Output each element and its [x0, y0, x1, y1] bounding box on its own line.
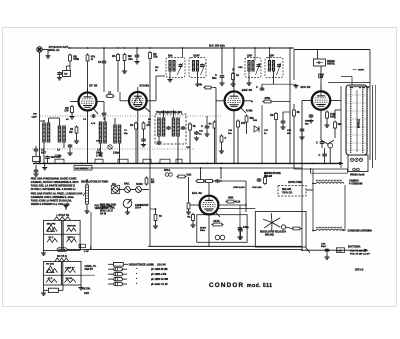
svg-text:BATTERIA: BATTERIA — [348, 246, 361, 249]
svg-text:pF ±20%: pF ±20% — [151, 274, 160, 276]
resistor 10k — [334, 110, 343, 138]
resistor P — [219, 134, 227, 153]
wire right frame vertical — [369, 50, 371, 161]
wire B+ top rail — [68, 47, 294, 49]
svg-text:CORDONE ANTENNA: CORDONE ANTENNA — [348, 230, 373, 233]
label C96 — [32, 114, 38, 119]
svg-text:C/16 0,5k: C/16 0,5k — [252, 187, 262, 189]
svg-text:TIPO CR: TIPO CR — [282, 192, 292, 195]
wire antenna down — [39, 52, 41, 163]
svg-text:RETE: RETE — [214, 221, 221, 223]
svg-text:RAD.: RAD. — [124, 182, 130, 185]
svg-text:CAMBIAR CON LI INSIEME IL AGG: CAMBIAR CON LI INSIEME IL AGG. — [31, 195, 75, 199]
svg-text:OSTR 1: OSTR 1 — [67, 237, 76, 239]
capacitor + ground wire — [256, 84, 299, 91]
wire x290 down — [289, 47, 291, 163]
label presa — [350, 173, 364, 176]
resistors above ECL82 — [195, 180, 214, 183]
labels misc 5 — [199, 131, 204, 136]
svg-text:R2A: R2A — [168, 54, 173, 57]
svg-text:R 47k: R 47k — [54, 156, 61, 159]
svg-text:SEC.PRI: SEC.PRI — [47, 224, 56, 226]
wires right of ECC82 — [328, 70, 370, 89]
label regolatore velocita — [260, 230, 286, 236]
svg-text:C/9F: C/9F — [247, 55, 253, 57]
wires ECH81 — [120, 76, 165, 101]
labels misc 14 — [66, 118, 69, 121]
svg-text:DI UNA L'ANTENNE DEL A RADIO: DI UNA L'ANTENNE DEL A RADIO LI — [31, 187, 76, 191]
label batteria — [348, 246, 370, 256]
svg-text:TP: TP — [64, 72, 68, 76]
motor box — [255, 212, 306, 248]
label pot volume — [95, 205, 113, 211]
switch S2 — [328, 140, 334, 163]
pickup jack box — [314, 50, 336, 67]
wire long down x150 — [149, 60, 151, 163]
resistor R4 — [130, 121, 137, 163]
tube EBF80 — [225, 91, 244, 110]
svg-text:FUS: FUS — [337, 250, 342, 252]
ground antenna — [45, 50, 50, 59]
wire right T2 — [81, 274, 95, 276]
resistor R1 1M — [69, 125, 79, 143]
resistor 5.1k — [145, 176, 155, 185]
svg-text:1 ΩΡ: 1 ΩΡ — [84, 251, 90, 253]
label caval — [85, 265, 97, 271]
wire to EF85 grid — [87, 63, 89, 92]
svg-text:MOD. LN 27: MOD. LN 27 — [100, 210, 114, 212]
svg-text:OG-4: OG-4 — [135, 207, 142, 210]
legend capacitor row 3 — [108, 277, 169, 281]
label commutator — [135, 204, 149, 210]
svg-text:MOD. AL: MOD. AL — [49, 48, 61, 52]
label cam — [318, 74, 324, 80]
wires from bus to ECL82 — [200, 167, 222, 179]
resistor field coil — [44, 285, 63, 292]
svg-text:5,6k: 5,6k — [187, 174, 192, 177]
svg-text:27k: 27k — [147, 124, 152, 127]
svg-text:μF ±20%: μF ±20% — [151, 279, 160, 281]
svg-text:kΩ: kΩ — [151, 181, 154, 184]
wire bottom bus 2 — [67, 249, 302, 251]
resistor 5k — [189, 122, 197, 163]
capacitor C10n to ground — [128, 47, 139, 64]
svg-text:10k: 10k — [338, 123, 343, 126]
label attacco ant — [49, 45, 69, 52]
svg-text:170: 170 — [64, 110, 69, 113]
ground at bus — [42, 163, 47, 170]
svg-text:50n: 50n — [212, 76, 217, 80]
oscillator coil L3 — [96, 117, 121, 163]
capacitor + wire — [213, 179, 247, 206]
labels misc 10 — [305, 121, 310, 126]
svg-text:MOBILE: MOBILE — [359, 119, 361, 128]
svg-text:FUS. F2 250 mA 6V: FUS. F2 250 mA 6V — [350, 252, 370, 255]
svg-text:908-1R2: 908-1R2 — [265, 234, 275, 236]
capacitor trimmer — [67, 144, 72, 155]
tube EF85 pins — [70, 88, 104, 163]
wire corner step 1 — [294, 163, 348, 169]
labels misc 1 — [83, 119, 96, 125]
svg-text:SO 4Ω: SO 4Ω — [66, 277, 73, 280]
tube ECL82 pins — [190, 183, 246, 222]
resistor 50k — [245, 114, 254, 134]
capacitor right 2 — [316, 141, 324, 149]
svg-text:LES: LES — [321, 243, 326, 245]
comps on bottom bus — [79, 244, 91, 253]
svg-text:R 56k: R 56k — [246, 110, 253, 113]
svg-text:TAGLI CON LA PARTE DI SALDA.: TAGLI CON LA PARTE DI SALDA. — [31, 199, 72, 203]
svg-text:PER UNA FUNZIONAM. RADIO CONT.: PER UNA FUNZIONAM. RADIO CONT. — [31, 177, 77, 181]
wire EBF80 plate up — [233, 47, 235, 84]
wire x150 down — [149, 163, 151, 246]
svg-text:C: C — [201, 125, 203, 128]
label R47k — [54, 156, 61, 159]
svg-text:C10n: C10n — [243, 227, 249, 229]
svg-text:SINTOM: SINTOM — [67, 226, 76, 228]
wire x302 down — [301, 163, 303, 250]
resistor 270k — [251, 97, 290, 103]
svg-text:SURV: SURV — [200, 228, 207, 230]
svg-text:CAP.: CAP. — [84, 292, 90, 295]
labels misc 4 — [186, 147, 191, 149]
svg-text:1/4 W: 1/4 W — [100, 212, 107, 215]
svg-text:CAVAL. PL: CAVAL. PL — [85, 265, 97, 268]
wire right coils — [344, 185, 346, 231]
labels misc 12 — [238, 67, 243, 69]
wire corner step 2 — [311, 168, 348, 173]
svg-text:LTO PR: LTO PR — [58, 250, 66, 252]
tube EF85 — [79, 93, 97, 111]
svg-text:RELAIS: RELAIS — [282, 188, 292, 191]
svg-text:PER BT: PER BT — [85, 269, 94, 271]
labels misc 9 — [287, 130, 292, 135]
fuse box — [337, 248, 345, 253]
svg-text:a 5%: a 5% — [161, 274, 166, 276]
label EF85 — [89, 83, 97, 87]
svg-text:CONDOR: CONDOR — [209, 282, 244, 289]
trimmer TP box — [61, 71, 70, 77]
antenna coil L1 L2 — [40, 118, 66, 163]
box comp — [111, 185, 119, 193]
capacitor right 1 — [319, 148, 327, 163]
svg-text:C/3R 5,1kΩ: C/3R 5,1kΩ — [233, 187, 245, 189]
capacitor to ground — [57, 72, 62, 81]
svg-text:POT. VOL 1MΩ: POT. VOL 1MΩ — [100, 205, 116, 207]
svg-text:P.U.: P.U. — [112, 184, 117, 186]
labels misc 3 — [148, 119, 152, 124]
svg-text:5,1k: 5,1k — [236, 200, 241, 203]
relais box — [278, 186, 306, 197]
resistor RB 470k — [69, 47, 80, 63]
resistor 100k — [324, 110, 336, 127]
resistor R2 22k — [149, 47, 158, 60]
wires beside strip — [341, 85, 376, 168]
svg-text:47 Ω: 47 Ω — [48, 277, 53, 280]
svg-text:1M: 1M — [270, 114, 273, 117]
capacitor — [194, 131, 199, 140]
svg-text:27k: 27k — [241, 122, 246, 125]
wire right frame top — [294, 50, 370, 81]
tube ECH81 — [129, 92, 147, 110]
label ECC82 — [301, 85, 311, 89]
svg-text:C: C — [256, 86, 258, 89]
svg-text:CON INTERR.: CON INTERR. — [100, 208, 115, 210]
svg-text:25p: 25p — [287, 133, 291, 135]
capacitor C10n — [237, 205, 249, 239]
resistor 27k b — [237, 119, 246, 163]
wire — [69, 63, 71, 71]
IF transformer MF2 top can — [245, 47, 283, 85]
label avvolture — [288, 181, 302, 184]
svg-text:PER DAR POSTO AL PREC. LUNGHI: PER DAR POSTO AL PREC. LUNGHI CAVI — [31, 192, 83, 196]
svg-text:FUS. F2 250 mA: FUS. F2 250 mA — [350, 250, 367, 253]
svg-text:ECH81: ECH81 — [140, 83, 150, 87]
svg-text:ECC 82: ECC 82 — [301, 85, 311, 89]
IF transformer MF1 mid dashed — [155, 110, 186, 163]
svg-text:4n: 4n — [209, 123, 212, 126]
resistor TC — [150, 208, 162, 228]
svg-text:V.L 25: V.L 25 — [161, 284, 168, 286]
capacitor C1 left — [34, 146, 39, 156]
tube ECC82 pins — [302, 85, 341, 163]
antenna terminal — [37, 47, 48, 52]
choke boxes on bus — [55, 159, 182, 163]
capacitor left low — [33, 165, 38, 176]
wire main heavy bus — [33, 162, 343, 165]
svg-text:Ω: Ω — [91, 57, 93, 61]
wire x91 down — [90, 212, 92, 250]
labels altop — [83, 287, 91, 295]
label smorzatore — [264, 172, 281, 178]
label ECH81 — [140, 83, 150, 87]
label cambio tensioni — [349, 180, 363, 186]
legend capacitor row 1 — [108, 268, 167, 272]
jack spill — [164, 170, 172, 176]
svg-text:EBF 80: EBF 80 — [242, 88, 253, 92]
connector strip piastra — [346, 85, 367, 155]
svg-text:FONO: FONO — [136, 184, 143, 186]
svg-text:C2N: C2N — [238, 67, 243, 69]
capacitor battery — [321, 243, 330, 259]
oval LTO PR — [57, 248, 67, 252]
svg-text:REGOLATORE DI TONO: REGOLATORE DI TONO — [81, 180, 108, 183]
IF transformer MF1 top can — [166, 47, 206, 87]
svg-text:C 40p: C 40p — [96, 155, 103, 158]
wire to right — [306, 169, 313, 231]
svg-text:SO 1kΩ: SO 1kΩ — [46, 264, 54, 266]
wire to switch — [321, 118, 329, 145]
resistor + ground — [186, 177, 191, 214]
svg-text:ALTOP.: ALTOP. — [83, 287, 91, 290]
box comp left — [33, 157, 41, 164]
svg-text:50μF: 50μF — [321, 246, 327, 248]
title CONDOR mod 511 — [209, 282, 272, 289]
svg-text:W.: W. — [151, 263, 154, 266]
svg-text:REGOLAT DI VELOCITA: REGOLAT DI VELOCITA — [260, 230, 286, 233]
svg-text:TAGLI DEL LA PARTE INFERIORE E: TAGLI DEL LA PARTE INFERIORE E — [31, 184, 75, 188]
svg-text:AVVOLTURE: AVVOLTURE — [288, 181, 302, 184]
svg-text:50p: 50p — [124, 133, 128, 135]
label cordone antenna — [348, 230, 373, 233]
svg-text:SPILL: SPILL — [164, 170, 171, 172]
resistor 47k — [86, 47, 95, 63]
svg-text:GRN: GRN — [228, 197, 233, 199]
label regolatore di tono — [81, 180, 108, 183]
label pot list — [100, 205, 116, 216]
label EBF80 — [242, 88, 253, 92]
resistor RK — [64, 105, 74, 119]
svg-text:RA: RA — [112, 55, 116, 58]
trimmers PU row — [111, 182, 149, 192]
resistor 5.1k out — [225, 197, 240, 203]
label ECL82 — [192, 191, 202, 195]
svg-text:120pF: 120pF — [113, 152, 120, 155]
svg-text:22k: 22k — [153, 55, 158, 59]
capacitor 50n — [212, 47, 225, 85]
svg-text:PRESA: PRESA — [327, 60, 335, 63]
svg-text:L 573,5 TΩ: L 573,5 TΩ — [57, 214, 70, 217]
diode + wire — [254, 105, 262, 163]
svg-text:4 TENSIONI: 4 TENSIONI — [349, 183, 363, 186]
svg-text:mod. 511: mod. 511 — [247, 283, 272, 289]
svg-text:1/10 1/4: 1/10 1/4 — [157, 263, 166, 266]
label MF 250 kHz — [209, 44, 225, 48]
resistor 1k — [230, 68, 239, 86]
svg-text:50 2M: 50 2M — [161, 269, 167, 271]
cord coil top — [312, 179, 344, 184]
svg-text:CUFF.: CUFF. — [358, 70, 365, 72]
transformer T1 — [44, 214, 81, 250]
svg-text:pF ±10%: pF ±10% — [151, 269, 160, 271]
labels misc 11 — [155, 67, 159, 72]
wire bottom bus 1 — [148, 245, 302, 247]
svg-text:PRESA 3a+M: PRESA 3a+M — [350, 173, 364, 176]
resistor 27k — [141, 121, 151, 146]
capacitor C4 — [98, 47, 106, 92]
svg-text:10n: 10n — [128, 57, 133, 61]
capacitor C9 — [45, 156, 54, 164]
resistor C2 — [105, 91, 114, 97]
svg-text:57 Ω: 57 Ω — [49, 237, 54, 239]
transformer T2 output — [44, 255, 81, 285]
grounds T2 — [41, 285, 84, 295]
rotary switch commutator — [123, 199, 132, 214]
legend resistor row — [108, 262, 166, 266]
svg-text:16 350: 16 350 — [161, 279, 169, 281]
svg-text:M.F. 250 kHz: M.F. 250 kHz — [209, 44, 225, 48]
svg-text:C/3AF: C/3AF — [193, 54, 200, 57]
svg-text:C 500: C 500 — [196, 84, 203, 87]
svg-text:μF elettr.: μF elettr. — [151, 283, 161, 286]
capacitor coupling — [102, 102, 107, 121]
labels misc 7 — [253, 120, 258, 122]
cap res pair — [257, 172, 267, 185]
legend capacitor row 2 — [108, 272, 166, 276]
svg-text:470k: 470k — [73, 57, 79, 61]
capacitor — [308, 114, 313, 123]
legend capacitor row 4 — [108, 282, 168, 286]
resistor TEL — [187, 213, 196, 228]
svg-text:C: C — [319, 154, 321, 157]
label sheet number — [355, 268, 364, 272]
svg-text:CAMP 57: CAMP 57 — [65, 267, 75, 270]
resistor 1k rail — [122, 47, 131, 73]
svg-text:TRASFORMATORE MF1: TRASFORMATORE MF1 — [156, 111, 183, 114]
tube ECL82 — [200, 196, 219, 215]
resistor 1M — [270, 112, 277, 163]
svg-text:2571-S: 2571-S — [355, 268, 364, 272]
potentiometer tone — [83, 179, 90, 213]
svg-text:GANGIO, AVVOLT ONDERISSE IL M: GANGIO, AVVOLT ONDERISSE IL MOT. — [31, 180, 79, 184]
resistor 5.6k — [176, 174, 191, 178]
junction dots on bus — [39, 163, 331, 165]
ground small — [63, 204, 68, 210]
capacitor C — [201, 116, 210, 136]
tube ECH81 pins — [120, 87, 156, 163]
switch contact — [305, 248, 310, 253]
wire y208 — [218, 208, 255, 210]
dotted line 2 — [32, 148, 195, 150]
capacitor + label — [246, 110, 305, 140]
svg-text:C: C — [316, 142, 318, 145]
wire — [67, 66, 71, 71]
labels caps — [233, 187, 262, 189]
svg-text:L.O. 600kHz: L.O. 600kHz — [75, 168, 88, 170]
box LO600 — [74, 166, 92, 170]
resistor 4n — [209, 120, 216, 163]
labels misc 8 — [264, 130, 269, 135]
svg-text:EF 85: EF 85 — [89, 83, 97, 87]
wire — [117, 62, 119, 92]
ground T1 — [41, 250, 46, 255]
svg-text:GIRAD.: GIRAD. — [327, 63, 335, 66]
cord coil bottom — [312, 226, 345, 231]
tube EBF80 pins — [216, 84, 252, 163]
wires below tube — [209, 205, 246, 246]
resistor RA 1k — [112, 47, 119, 62]
resistor input EBF80 — [196, 84, 217, 164]
text notes block — [31, 177, 83, 206]
tube ECC82 — [312, 91, 330, 109]
resistor motor — [291, 227, 301, 230]
rectifier box — [197, 215, 247, 243]
battery supply line — [301, 249, 368, 252]
labels misc 6 — [228, 129, 233, 135]
wire — [320, 66, 322, 91]
svg-text:270k: 270k — [265, 97, 271, 100]
svg-text:1M: 1M — [69, 131, 72, 134]
capacitor — [280, 112, 290, 129]
svg-text:ANT: ANT — [41, 152, 47, 155]
svg-text:10n: 10n — [228, 133, 232, 135]
labels misc 13 — [96, 141, 100, 143]
dotted AGC line — [40, 115, 222, 117]
svg-text:TC: TC — [159, 215, 162, 218]
labels misc 2 — [124, 130, 128, 135]
motor star — [263, 213, 292, 232]
resistor 6k — [293, 104, 301, 163]
svg-text:ECL 82: ECL 82 — [192, 191, 202, 195]
presa box — [348, 155, 368, 172]
wire bus 2 — [75, 167, 302, 169]
svg-text:0,5μF: 0,5μF — [32, 116, 38, 118]
